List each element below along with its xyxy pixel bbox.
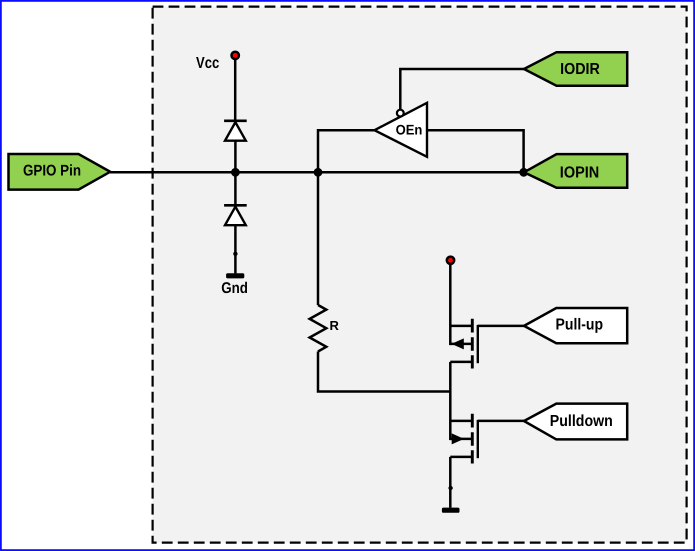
junction node B on GPIO line (314, 168, 323, 177)
wire main GPIO horizontal net (110, 171, 524, 174)
svg-text:Vcc: Vcc (196, 55, 219, 72)
wire Q2 source down to ground (449, 457, 452, 508)
op-amp buffer U1 OEn triangle (375, 103, 428, 157)
Pulldown port label (524, 404, 627, 440)
diode D2 (to Gnd) (224, 205, 247, 225)
wire OEn output to node B (318, 130, 375, 172)
svg-text:IODIR: IODIR (560, 61, 600, 78)
connection point dot on Q2 ground wire (448, 486, 452, 490)
transistor Q1 pull-up MOSFET (450, 319, 478, 369)
ground Gnd symbol (bar) (226, 273, 244, 278)
wire node B down to resistor R (317, 172, 320, 305)
Pull-up port label (524, 308, 627, 343)
svg-text:Pulldown: Pulldown (550, 413, 613, 430)
wire Q2 gate to Pulldown port (478, 420, 524, 423)
wire supply to Q1 source (449, 263, 452, 345)
diode D1 (to Vcc) (224, 121, 247, 141)
transistor Q2 pulldown MOSFET (450, 414, 478, 464)
wire Q1 drain down to junction (449, 362, 452, 392)
svg-text:Pull-up: Pull-up (556, 316, 604, 333)
wire resistor R to MOSFET drain rail (318, 352, 450, 392)
wire node A to D2 cathode (234, 172, 237, 204)
svg-text:R: R (330, 318, 340, 333)
wire D2 anode to ground (234, 225, 237, 273)
svg-text:IOPIN: IOPIN (560, 164, 599, 181)
wire junction down to Q2 drain (449, 392, 452, 441)
junction node A on GPIO line (231, 168, 240, 177)
svg-text:Gnd: Gnd (221, 280, 248, 297)
svg-text:OEn: OEn (396, 121, 423, 137)
junction node C at IOPIN (519, 168, 528, 177)
inverter bubble on OEn enable (397, 110, 404, 117)
ground symbol below Q2 (442, 508, 460, 513)
wire IODIR to OEn enable bubble (400, 69, 524, 110)
wire Q1 gate to Pull-up port (478, 325, 524, 328)
wire D1 anode to node A (234, 141, 237, 173)
chip boundary dashed box (153, 7, 687, 543)
wire OEn input from IOPIN node (427, 130, 524, 172)
IOPIN port label (524, 154, 627, 188)
resistor R zigzag (310, 305, 340, 352)
svg-text:GPIO Pin: GPIO Pin (23, 163, 81, 180)
wire Vcc to D1 cathode (234, 59, 237, 120)
net Vcc power symbol (red dot) (232, 52, 239, 59)
GPIO Pin port label (9, 154, 111, 190)
IODIR port label (524, 52, 627, 85)
net supply red dot for pull-up (447, 257, 454, 264)
connection point dot on ground wire (233, 252, 237, 256)
